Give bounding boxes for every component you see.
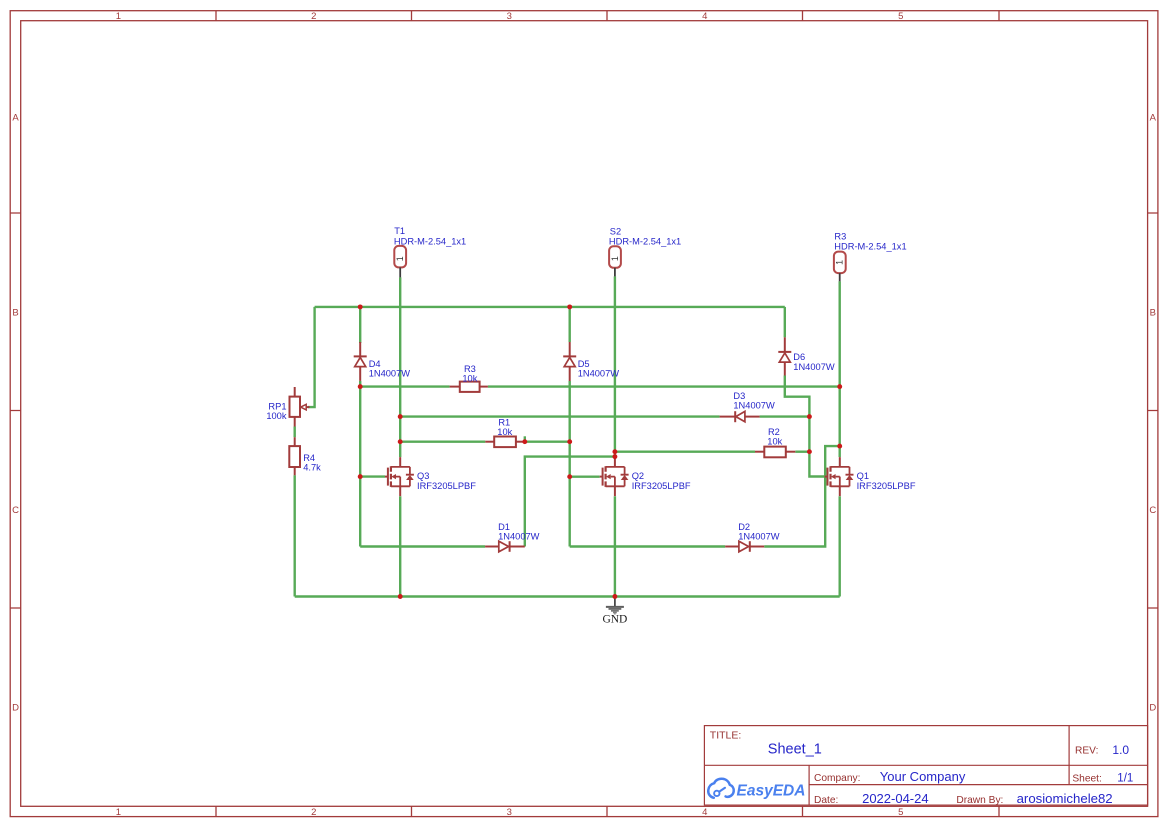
- junction dots: [358, 304, 842, 599]
- wire Q3 gate lead: [360, 475, 385, 477]
- svg-text:D: D: [1149, 703, 1156, 714]
- svg-text:TITLE:: TITLE:: [710, 730, 742, 742]
- wire D5 anode stub: [569, 307, 571, 342]
- svg-text:C: C: [1149, 505, 1156, 516]
- svg-text:10k: 10k: [462, 373, 477, 383]
- wire Q3 gate node to D1 anode: [360, 545, 485, 547]
- svg-text:1N4007W: 1N4007W: [369, 369, 411, 379]
- svg-text:1N4007W: 1N4007W: [498, 532, 540, 542]
- svg-text:D5: D5: [578, 359, 590, 369]
- wire stub above R1 output: [524, 436, 526, 441]
- wire Q3 source to ground bus: [399, 496, 401, 596]
- wire D4 cathode to node: [359, 381, 361, 387]
- svg-text:3: 3: [507, 11, 512, 22]
- svg-text:IRF3205LPBF: IRF3205LPBF: [857, 481, 916, 491]
- diode D5: [563, 342, 576, 381]
- svg-text:5: 5: [898, 807, 903, 818]
- wire ground bus: [295, 595, 840, 597]
- wire R4 to ground bus: [294, 475, 296, 596]
- header T1: [394, 226, 466, 278]
- svg-text:3: 3: [507, 807, 512, 818]
- svg-text:IRF3205LPBF: IRF3205LPBF: [632, 481, 691, 491]
- svg-text:HDR-M-2.54_1x1: HDR-M-2.54_1x1: [394, 236, 466, 246]
- header S2: [609, 227, 681, 277]
- node D2 return / Q1 drain: [837, 444, 842, 449]
- wire R2 net right: [795, 451, 809, 453]
- wire R2 net left: [615, 451, 755, 453]
- wire Q3 gate column: [359, 387, 361, 547]
- wire D6 cathode to Q1 gate: [785, 376, 825, 477]
- node top bus / D4: [358, 304, 363, 309]
- svg-text:A: A: [12, 112, 19, 123]
- svg-text:IRF3205LPBF: IRF3205LPBF: [417, 481, 476, 491]
- svg-text:1N4007W: 1N4007W: [738, 532, 780, 542]
- wire D2 cathode to Q1 drain: [764, 446, 840, 546]
- svg-text:HDR-M-2.54_1x1: HDR-M-2.54_1x1: [609, 236, 681, 246]
- svg-text:RP1: RP1: [268, 402, 286, 412]
- node GND / ground bus: [612, 594, 617, 599]
- svg-text:Q1: Q1: [857, 471, 869, 481]
- svg-text:1N4007W: 1N4007W: [578, 369, 620, 379]
- svg-text:D: D: [12, 703, 19, 714]
- svg-text:4: 4: [702, 807, 707, 818]
- svg-text:1: 1: [116, 11, 121, 22]
- node R1 net / T1 line: [398, 439, 403, 444]
- svg-text:Sheet:: Sheet:: [1072, 774, 1101, 785]
- svg-text:1/1: 1/1: [1117, 773, 1133, 785]
- svg-text:R3: R3: [464, 364, 476, 374]
- svg-text:1N4007W: 1N4007W: [733, 401, 775, 411]
- svg-text:R3: R3: [834, 232, 846, 242]
- pin 1 of T1: [399, 267, 401, 277]
- header R3 (connector): [834, 232, 907, 282]
- resistor R1 10k: [485, 437, 525, 448]
- svg-text:4.7k: 4.7k: [303, 463, 321, 473]
- svg-text:2: 2: [311, 807, 316, 818]
- diode D3: [720, 411, 760, 422]
- svg-text:D6: D6: [793, 352, 805, 362]
- svg-text:2: 2: [311, 11, 316, 22]
- diode D6: [778, 337, 791, 375]
- diode D4: [354, 342, 367, 381]
- svg-text:GND: GND: [602, 614, 627, 626]
- wire D3 net: [400, 415, 809, 417]
- svg-text:D1: D1: [498, 522, 510, 532]
- svg-text:D4: D4: [369, 359, 381, 369]
- svg-text:HDR-M-2.54_1x1: HDR-M-2.54_1x1: [834, 242, 906, 252]
- svg-text:Company:: Company:: [814, 773, 860, 784]
- svg-text:10k: 10k: [767, 437, 782, 447]
- ground GND: [602, 597, 627, 626]
- node Q3 gate: [358, 474, 363, 479]
- wire R1 net left: [400, 441, 485, 443]
- svg-text:A: A: [1150, 112, 1157, 123]
- svg-text:S2: S2: [610, 227, 621, 237]
- node Q2 gate: [567, 474, 572, 479]
- svg-text:Your Company: Your Company: [880, 769, 966, 784]
- svg-text:EasyEDA: EasyEDA: [737, 783, 806, 800]
- svg-text:2022-04-24: 2022-04-24: [862, 791, 929, 806]
- pin 1 of header R3: [839, 273, 841, 281]
- wire T1 to Q3 drain: [399, 277, 401, 457]
- node D4 cathode / R3 net: [358, 384, 363, 389]
- potentiometer RP1 100k: [290, 387, 310, 427]
- transistor Q3: [385, 457, 414, 496]
- svg-text:1: 1: [395, 256, 405, 261]
- svg-text:R1: R1: [498, 417, 510, 427]
- svg-text:C: C: [12, 505, 19, 516]
- wire top supply bus: [315, 306, 785, 308]
- svg-text:Date:: Date:: [814, 795, 838, 806]
- EasyEDA logo: [708, 779, 734, 798]
- node D3 net / T1 line: [398, 414, 403, 419]
- node Q3 source / ground bus: [398, 594, 403, 599]
- wire Q1 source to ground bus: [839, 496, 841, 596]
- svg-text:D3: D3: [733, 391, 745, 401]
- node R2 / Q1 gate column: [807, 449, 812, 454]
- node R2 net / S2 line: [612, 449, 617, 454]
- wire D6 anode stub: [784, 307, 786, 337]
- svg-text:REV:: REV:: [1075, 746, 1098, 757]
- svg-text:100k: 100k: [266, 411, 287, 421]
- svg-text:D2: D2: [738, 522, 750, 532]
- wire S2 to Q2 drain: [614, 276, 616, 457]
- node top bus / D5: [567, 304, 572, 309]
- node R1 net / Q2 gate column: [567, 439, 572, 444]
- pin 1 of S2: [614, 268, 616, 277]
- transistor Q1: [825, 457, 854, 496]
- wire R1 net right: [525, 441, 570, 443]
- resistor R2 10k: [755, 447, 795, 458]
- resistor R4 4.7k: [289, 437, 300, 475]
- diode D2: [725, 541, 764, 552]
- node R1 output: [522, 439, 527, 444]
- diode D1: [485, 541, 525, 552]
- TITLE BLOCK: [704, 726, 1147, 806]
- svg-text:1: 1: [835, 260, 845, 265]
- wire Q2 source to ground bus: [614, 496, 616, 596]
- wire Q2 gate column: [569, 381, 571, 547]
- svg-text:1.0: 1.0: [1112, 743, 1129, 757]
- transistor Q2: [600, 457, 629, 496]
- svg-text:1N4007W: 1N4007W: [793, 362, 835, 372]
- svg-text:B: B: [12, 307, 18, 318]
- wire R3 header to Q1 drain: [839, 281, 841, 457]
- svg-text:Q3: Q3: [417, 471, 429, 481]
- resistor R3 10k: [450, 382, 488, 392]
- wire D1 cathode to Q2 drain: [525, 457, 615, 547]
- svg-text:Drawn By:: Drawn By:: [956, 795, 1003, 806]
- wire Q2 gate node to D2 anode: [570, 545, 726, 547]
- wire RP1 to R4: [294, 427, 296, 438]
- svg-text:arosiomichele82: arosiomichele82: [1017, 791, 1113, 806]
- svg-text:B: B: [1150, 307, 1156, 318]
- svg-text:1: 1: [610, 256, 620, 261]
- wire R3 net left segment: [360, 385, 449, 387]
- node D1 wire / S2 line: [612, 454, 617, 459]
- wire left branch to RP1 wiper: [308, 307, 315, 407]
- wire R3 net right segment: [488, 385, 840, 387]
- node D3 cathode / Q1 gate column: [807, 414, 812, 419]
- wire D4 anode stub: [359, 307, 361, 343]
- svg-text:10k: 10k: [497, 427, 512, 437]
- svg-text:Q2: Q2: [632, 471, 644, 481]
- svg-text:Sheet_1: Sheet_1: [768, 742, 822, 758]
- svg-text:4: 4: [702, 11, 707, 22]
- svg-text:5: 5: [898, 11, 903, 22]
- node R3 net / R3 header line: [837, 384, 842, 389]
- svg-text:1: 1: [116, 807, 121, 818]
- wire Q2 gate lead: [570, 476, 600, 478]
- svg-text:R4: R4: [303, 453, 315, 463]
- svg-text:T1: T1: [394, 226, 405, 236]
